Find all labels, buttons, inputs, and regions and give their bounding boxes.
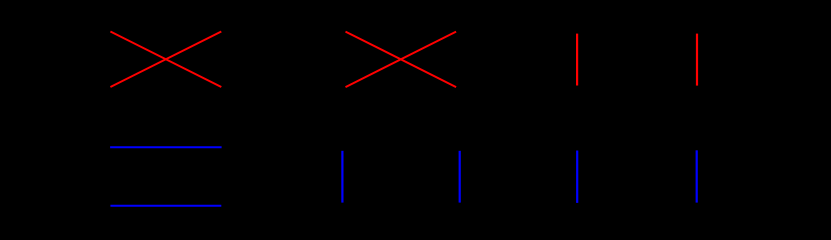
diagram 4: blue vertical strand bbox=[696, 150, 698, 202]
diagram 3: red vertical strand bbox=[576, 34, 578, 86]
diagram 4: red vertical strand bbox=[696, 34, 698, 86]
diagram 2: blue vertical strand (right) bbox=[459, 151, 461, 203]
diagram 1: red crossing strand (bottom-left to top-right) bbox=[110, 32, 221, 88]
diagram 2: red crossing strand (top-left to bottom-right) bbox=[346, 32, 457, 88]
diagram 2: blue vertical strand (left) bbox=[341, 151, 343, 203]
diagram 3: blue vertical strand bbox=[576, 151, 578, 203]
diagram 1: red crossing strand (top-left to bottom-right) bbox=[110, 32, 221, 88]
diagram 2: red crossing strand (bottom-left to top-right) bbox=[346, 32, 457, 88]
diagram 1: blue horizontal strand (upper) bbox=[110, 146, 222, 148]
diagram 1: blue horizontal strand (lower) bbox=[110, 205, 221, 207]
